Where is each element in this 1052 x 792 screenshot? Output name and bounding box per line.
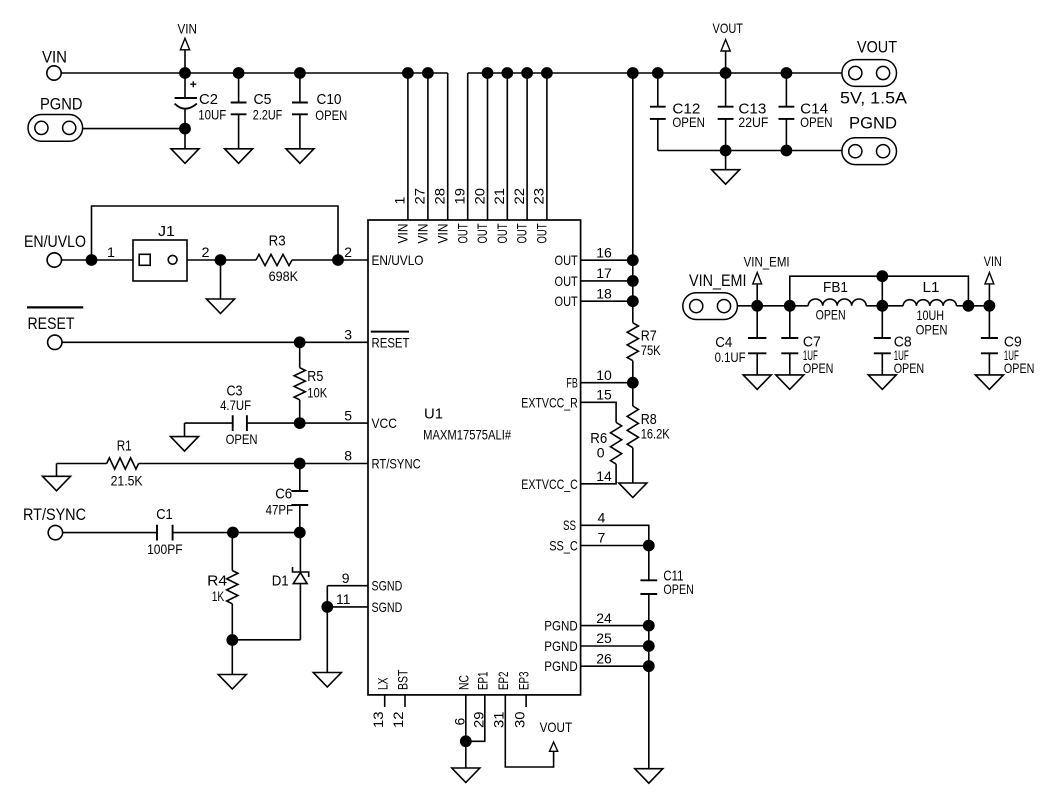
svg-text:VIN_EMI: VIN_EMI xyxy=(689,271,747,290)
svg-text:2: 2 xyxy=(202,244,210,260)
ground below C13 xyxy=(725,151,727,170)
wire C3 to ground xyxy=(185,422,233,424)
node VIN-C9 junction xyxy=(984,300,996,312)
svg-text:22: 22 xyxy=(511,188,527,205)
svg-text:3: 3 xyxy=(344,327,352,343)
power flag VOUT at EP2 xyxy=(550,742,558,751)
capacitor C2 xyxy=(184,73,186,98)
pin 1 VIN top xyxy=(407,73,409,220)
svg-text:4: 4 xyxy=(598,510,606,526)
wire OUT column top xyxy=(632,73,634,323)
svg-text:OUT: OUT xyxy=(555,293,579,309)
terminal VIN xyxy=(47,66,61,80)
resistor R7 xyxy=(627,323,638,361)
pad VIN_EMI xyxy=(683,293,738,320)
svg-text:0: 0 xyxy=(597,444,605,460)
pad PGND input xyxy=(28,115,83,142)
svg-text:R5: R5 xyxy=(307,368,323,385)
svg-text:6: 6 xyxy=(451,718,467,726)
svg-text:C6: C6 xyxy=(275,486,292,503)
svg-text:EXTVCC_C: EXTVCC_C xyxy=(521,476,578,492)
svg-text:RESET: RESET xyxy=(28,314,75,333)
svg-text:0.1UF: 0.1UF xyxy=(715,349,746,365)
wire RT/SYNC terminal to C1 xyxy=(63,532,157,534)
svg-text:NC: NC xyxy=(455,675,471,690)
pin 20 OUT top xyxy=(487,73,489,220)
svg-text:OUT: OUT xyxy=(494,223,510,243)
capacitor C13 xyxy=(720,67,732,79)
op-amp U1 MAXM17575ALI# body xyxy=(368,220,581,695)
svg-text:J1: J1 xyxy=(158,223,175,240)
wire RESET to U1 xyxy=(62,341,368,343)
svg-text:30: 30 xyxy=(511,711,527,728)
pin 18 OUT wire xyxy=(581,300,633,302)
jumper J1 xyxy=(133,240,187,281)
wire SGND pin9 xyxy=(327,585,368,587)
svg-text:VIN_EMI: VIN_EMI xyxy=(744,254,790,270)
resistor R8 xyxy=(627,406,638,448)
svg-text:OPEN: OPEN xyxy=(916,321,948,337)
svg-text:VIN: VIN xyxy=(395,224,411,244)
node VIN_EMI junction xyxy=(751,300,763,312)
pin 6 NC bottom xyxy=(465,695,467,768)
svg-text:17: 17 xyxy=(596,265,612,281)
terminal RT/SYNC xyxy=(48,525,62,539)
pin 17 OUT wire xyxy=(581,280,633,282)
wire VIN rail xyxy=(61,72,448,74)
wire FB1 to L1 xyxy=(866,305,903,307)
capacitor C10 xyxy=(294,67,306,79)
svg-text:10K: 10K xyxy=(307,384,328,400)
svg-text:EXTVCC_R: EXTVCC_R xyxy=(521,394,578,410)
svg-text:OPEN: OPEN xyxy=(803,360,834,376)
svg-text:100PF: 100PF xyxy=(147,541,183,557)
wire output ground rail xyxy=(658,150,842,152)
svg-text:OUT: OUT xyxy=(534,223,550,243)
wire PGND column to ground xyxy=(648,666,650,769)
capacitor C4 xyxy=(756,306,758,338)
svg-text:22UF: 22UF xyxy=(738,114,768,130)
svg-text:C2: C2 xyxy=(199,91,218,108)
wire R3 to U1 EN/UVLO xyxy=(292,259,368,261)
node OUT pin23 junction xyxy=(541,67,553,79)
node VIN-C2 junction xyxy=(179,67,191,79)
inductor FB1 xyxy=(808,299,866,306)
svg-text:OPEN: OPEN xyxy=(816,307,846,323)
svg-text:U1: U1 xyxy=(424,406,443,423)
ground below SGND xyxy=(326,607,328,673)
svg-text:R3: R3 xyxy=(269,233,286,250)
svg-text:25: 25 xyxy=(596,630,612,646)
pin 23 OUT top xyxy=(546,73,548,220)
wire R1 to ground xyxy=(57,463,107,465)
diode D1 xyxy=(299,533,301,573)
svg-text:OPEN: OPEN xyxy=(663,581,694,597)
svg-text:19: 19 xyxy=(452,188,468,205)
node NC-EP1 junction xyxy=(460,735,472,747)
svg-text:R1: R1 xyxy=(117,437,132,454)
svg-text:EP1: EP1 xyxy=(474,671,490,690)
pin 21 OUT top xyxy=(506,73,508,220)
svg-text:OPEN: OPEN xyxy=(894,360,925,376)
svg-text:OUT: OUT xyxy=(555,252,579,268)
resistor R5 xyxy=(299,342,301,367)
svg-text:PGND: PGND xyxy=(544,638,578,654)
svg-text:2: 2 xyxy=(344,244,352,260)
svg-text:C5: C5 xyxy=(254,91,272,108)
svg-text:PGND: PGND xyxy=(849,114,897,133)
wire J1 to R3 xyxy=(187,259,256,261)
svg-text:OUT: OUT xyxy=(474,223,490,243)
node bypass-C8 junction xyxy=(876,270,888,282)
svg-text:28: 28 xyxy=(432,188,448,205)
node EN pin junction xyxy=(332,254,344,266)
svg-text:23: 23 xyxy=(531,188,547,205)
capacitor C12 xyxy=(652,67,664,79)
svg-text:SS: SS xyxy=(563,517,576,533)
svg-text:BST: BST xyxy=(395,669,411,690)
svg-text:VIN: VIN xyxy=(434,224,450,244)
wire VCC pin xyxy=(247,422,368,424)
svg-text:FB: FB xyxy=(566,375,577,391)
node J1 pin2 junction xyxy=(215,254,227,266)
svg-text:VIN: VIN xyxy=(984,253,1002,269)
pin 16 OUT wire xyxy=(581,259,633,261)
pin 26 PGND wire xyxy=(581,665,649,667)
svg-text:EN/UVLO: EN/UVLO xyxy=(24,232,86,251)
svg-text:VIN: VIN xyxy=(42,48,67,67)
svg-text:VOUT: VOUT xyxy=(540,719,573,735)
node OUT pin20 junction xyxy=(482,67,494,79)
svg-text:C1: C1 xyxy=(156,506,173,523)
wire C1 to D1 column xyxy=(173,532,300,534)
svg-text:21.5K: 21.5K xyxy=(111,472,144,488)
svg-text:10UF: 10UF xyxy=(198,107,226,123)
power flag VIN xyxy=(184,50,186,73)
ground below R8 xyxy=(619,483,647,498)
wire R7 to FB xyxy=(632,361,634,406)
node SGND junction xyxy=(321,601,333,613)
node OUT pin21 junction xyxy=(501,67,513,79)
svg-text:VCC: VCC xyxy=(372,415,397,431)
pad VOUT output xyxy=(842,60,897,87)
pin 15 EXTVCC_R wire xyxy=(581,402,617,422)
ground at C3 xyxy=(171,437,199,452)
svg-text:1: 1 xyxy=(107,244,115,260)
capacitor C7 xyxy=(789,306,791,338)
resistor R3 xyxy=(256,254,292,265)
wire L1 to VIN xyxy=(957,305,990,307)
svg-text:FB1: FB1 xyxy=(823,279,848,296)
wire PGND pad to C2 xyxy=(83,128,185,130)
svg-text:SGND: SGND xyxy=(372,578,403,594)
svg-text:18: 18 xyxy=(596,285,612,301)
svg-text:47PF: 47PF xyxy=(266,501,294,517)
ground below C2 xyxy=(184,129,186,149)
node C7 junction xyxy=(784,300,796,312)
pad PGND output xyxy=(842,138,897,165)
svg-text:29: 29 xyxy=(470,711,486,728)
svg-text:OPEN: OPEN xyxy=(226,431,258,447)
svg-text:OPEN: OPEN xyxy=(1004,360,1035,376)
node VIN pin1 junction xyxy=(402,67,414,79)
svg-text:4.7UF: 4.7UF xyxy=(220,397,251,413)
node C2-PGND junction xyxy=(179,123,191,135)
svg-text:EP2: EP2 xyxy=(495,671,511,690)
node VIN pin27 junction xyxy=(422,67,434,79)
svg-text:7: 7 xyxy=(598,530,606,546)
node PGND25 junction xyxy=(643,640,655,652)
svg-text:EN/UVLO: EN/UVLO xyxy=(372,252,424,268)
svg-text:10: 10 xyxy=(596,367,612,383)
pin 28 VIN top xyxy=(447,73,449,220)
svg-text:SGND: SGND xyxy=(372,599,403,615)
svg-text:RESET: RESET xyxy=(372,334,410,350)
svg-text:L1: L1 xyxy=(923,279,940,296)
node RT junction xyxy=(294,458,306,470)
svg-text:15: 15 xyxy=(596,387,612,403)
ground below pin6 xyxy=(452,768,480,783)
svg-text:OUT: OUT xyxy=(514,223,530,243)
svg-text:698K: 698K xyxy=(269,268,299,284)
pin 22 OUT top xyxy=(526,73,528,220)
svg-text:8: 8 xyxy=(344,448,352,464)
svg-text:24: 24 xyxy=(596,610,612,626)
wire RT/SYNC pin xyxy=(139,463,368,465)
capacitor C11 xyxy=(648,546,650,581)
svg-text:EP3: EP3 xyxy=(516,671,532,690)
node OUT pin22 junction xyxy=(521,67,533,79)
svg-text:OUT: OUT xyxy=(555,273,579,289)
wire R8 to ground xyxy=(632,448,634,483)
wire EN bypass loop xyxy=(92,206,339,260)
power flag VIN right xyxy=(988,284,990,306)
pin 30 EP3 bottom xyxy=(525,695,527,707)
svg-text:PGND: PGND xyxy=(40,94,83,113)
svg-text:R4: R4 xyxy=(207,573,227,590)
svg-text:16: 16 xyxy=(596,244,612,260)
node RESET-R5 junction xyxy=(294,336,306,348)
capacitor C1 xyxy=(157,525,173,541)
pin 19 OUT top xyxy=(467,73,469,220)
svg-text:LX: LX xyxy=(374,677,390,690)
wire bypass to C8 xyxy=(881,276,883,306)
node SS_C junction xyxy=(643,540,655,552)
node VCC junction xyxy=(294,417,306,429)
node C6-D1 junction xyxy=(294,527,306,539)
pin 7 SS_C wire xyxy=(581,545,649,547)
svg-text:75K: 75K xyxy=(641,342,662,358)
ground below J1 xyxy=(220,260,222,299)
power flag VIN_EMI xyxy=(756,284,758,306)
wire EMI bypass top xyxy=(790,276,969,306)
svg-text:26: 26 xyxy=(596,650,612,666)
svg-text:VIN: VIN xyxy=(178,20,198,36)
svg-text:SS_C: SS_C xyxy=(549,537,578,553)
node L1 out junction xyxy=(963,300,975,312)
inductor L1 xyxy=(903,300,956,306)
capacitor C5 xyxy=(233,67,245,79)
node FB1-L1 junction xyxy=(876,300,888,312)
svg-text:12: 12 xyxy=(390,711,406,728)
svg-text:RT/SYNC: RT/SYNC xyxy=(372,456,421,472)
node R4 bottom junction xyxy=(226,634,238,646)
node OUT16 junction xyxy=(627,254,639,266)
pin 12 BST bottom xyxy=(404,695,406,707)
ground below R4 xyxy=(231,640,233,675)
svg-text:14: 14 xyxy=(596,468,612,484)
wire SGND pin11 xyxy=(327,606,368,608)
pin 10 FB wire xyxy=(581,382,633,384)
svg-text:13: 13 xyxy=(370,711,386,728)
capacitor C14 xyxy=(781,67,793,79)
pin 4 SS wire xyxy=(581,525,649,545)
svg-text:RT/SYNC: RT/SYNC xyxy=(23,505,86,524)
svg-text:OUT: OUT xyxy=(454,223,470,243)
pin 27 VIN top xyxy=(427,73,429,220)
capacitor C9 xyxy=(988,306,990,338)
resistor R1 xyxy=(107,458,139,469)
svg-text:PGND: PGND xyxy=(544,618,578,634)
svg-text:C10: C10 xyxy=(317,91,342,108)
wire OUT rail xyxy=(468,72,842,74)
svg-text:VOUT: VOUT xyxy=(713,20,744,36)
svg-text:9: 9 xyxy=(342,570,350,586)
terminal EN/UVLO xyxy=(47,253,61,267)
svg-text:5: 5 xyxy=(344,407,352,423)
svg-text:1K: 1K xyxy=(212,588,225,604)
wire VIN_EMI pad to FB1 xyxy=(737,305,808,307)
node FB junction xyxy=(627,377,639,389)
pin 13 LX bottom xyxy=(384,695,386,707)
wire SGND column xyxy=(326,586,328,607)
terminal RESET xyxy=(48,335,62,349)
wire D1 to R4 xyxy=(232,639,300,641)
node OUT column junction xyxy=(627,67,639,79)
svg-text:OPEN: OPEN xyxy=(800,114,833,130)
svg-text:20: 20 xyxy=(471,188,487,205)
svg-text:2.2UF: 2.2UF xyxy=(253,107,282,123)
node OUT17 junction xyxy=(627,275,639,287)
node R4 top junction xyxy=(227,527,239,539)
svg-text:16.2K: 16.2K xyxy=(641,425,671,441)
svg-text:MAXM17575ALI#: MAXM17575ALI# xyxy=(423,427,511,443)
svg-text:27: 27 xyxy=(412,188,428,205)
pin 31 EP2 bottom xyxy=(505,695,553,767)
svg-text:OPEN: OPEN xyxy=(315,107,347,123)
svg-text:5V, 1.5A: 5V, 1.5A xyxy=(840,89,908,108)
svg-text:OPEN: OPEN xyxy=(672,114,705,130)
resistor R4 xyxy=(231,533,233,571)
ground at R1 xyxy=(43,476,71,491)
pin 25 PGND wire xyxy=(581,645,649,647)
ground below PGND column xyxy=(635,769,663,784)
pin 29 EP1 bottom xyxy=(466,695,485,741)
wire EN terminal to J1 xyxy=(62,259,134,261)
svg-text:VIN: VIN xyxy=(415,224,431,244)
node PGND24 junction xyxy=(643,620,655,632)
capacitor C3 xyxy=(233,415,247,431)
svg-text:21: 21 xyxy=(491,188,507,205)
power flag VOUT xyxy=(725,51,727,73)
capacitor C6 xyxy=(299,464,301,492)
svg-text:PGND: PGND xyxy=(544,658,578,674)
pin 24 PGND wire xyxy=(581,625,649,627)
resistor R6 xyxy=(610,422,621,464)
svg-text:31: 31 xyxy=(490,711,506,728)
pin 14 EXTVCC_C wire xyxy=(581,464,617,484)
svg-text:D1: D1 xyxy=(272,573,289,590)
svg-text:VOUT: VOUT xyxy=(857,38,897,57)
node PGND26 junction xyxy=(643,660,655,672)
svg-text:1: 1 xyxy=(392,197,408,205)
node OUT18 junction xyxy=(627,295,639,307)
node EN junction xyxy=(86,254,98,266)
capacitor C8 xyxy=(881,306,883,338)
svg-text:11: 11 xyxy=(336,591,351,607)
